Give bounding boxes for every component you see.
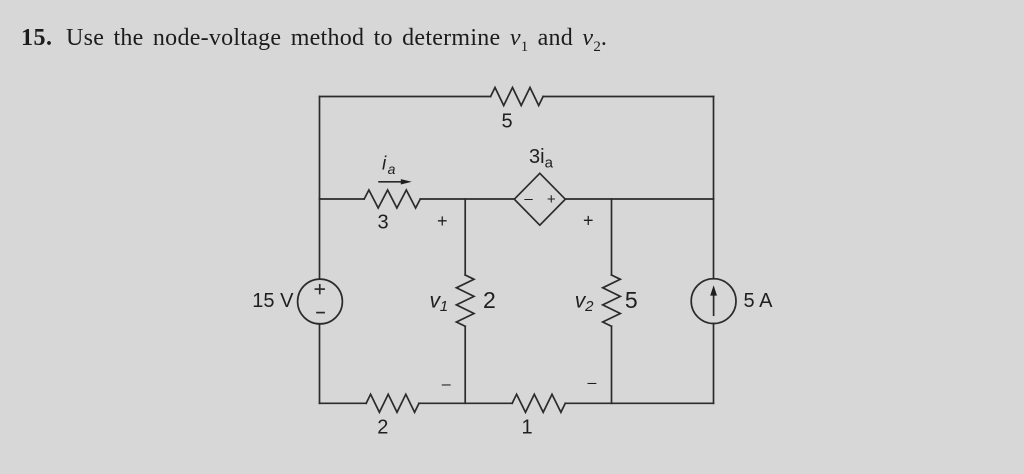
svg-text:5: 5: [501, 110, 512, 132]
current source 5 A: [691, 279, 736, 324]
current arrow ia: [379, 179, 412, 184]
wire: left vertical upper (top rail to voltage source): [319, 97, 321, 280]
voltage source 15 V: [298, 279, 343, 324]
svg-text:i: i: [382, 153, 387, 174]
svg-text:1: 1: [521, 417, 532, 439]
svg-text:5 A: 5 A: [744, 290, 774, 312]
svg-text:–: –: [587, 375, 596, 392]
resistor 3 ohm (middle): [364, 190, 420, 208]
resistor 5 ohm (v2 branch): [603, 275, 621, 326]
wire: v2 branch lower: [611, 326, 613, 403]
svg-text:5: 5: [625, 287, 638, 313]
wire: bottom rail middle segment: [419, 402, 512, 404]
wire: right vertical below current source: [713, 324, 715, 404]
svg-text:2: 2: [377, 416, 388, 438]
wire: top rail right segment: [543, 96, 713, 98]
svg-text:+: +: [547, 191, 556, 208]
svg-text:+: +: [437, 211, 448, 231]
problem statement title: [21, 25, 53, 52]
svg-text:–: –: [524, 190, 533, 207]
svg-text:1: 1: [440, 298, 448, 315]
wire: top rail left segment: [320, 96, 491, 98]
wire: v1 branch lower: [464, 326, 466, 403]
wire: bottom rail left segment: [320, 402, 367, 404]
svg-text:15 V: 15 V: [252, 290, 294, 312]
svg-text:a: a: [388, 161, 396, 177]
wire: middle rail segment left: [320, 198, 365, 200]
resistor 2 ohm (v1 branch): [456, 275, 474, 326]
wire: v2 branch upper: [611, 199, 613, 275]
wire: left vertical below voltage source: [319, 324, 321, 404]
resistor 2 ohm (bottom left): [366, 394, 419, 412]
wire: v1 branch upper: [464, 199, 466, 275]
svg-text:3i: 3i: [529, 146, 545, 168]
wire: middle rail segment right of dependent source: [565, 198, 713, 200]
svg-text:+: +: [583, 210, 594, 230]
dependent source 3ia (diamond): [514, 173, 565, 225]
svg-text:a: a: [545, 154, 554, 171]
svg-text:3: 3: [377, 212, 388, 234]
wire: middle rail segment between 3 ohm and dependent source: [420, 198, 514, 200]
wire: right vertical (middle rail to current source): [713, 199, 715, 279]
wire: right vertical upper (top rail to middle rail): [713, 97, 715, 200]
svg-text:–: –: [442, 376, 451, 393]
svg-text:2: 2: [584, 298, 594, 315]
resistor 5 ohm (top): [491, 88, 543, 106]
wire: bottom rail right segment: [565, 402, 713, 404]
svg-text:2: 2: [483, 287, 496, 313]
resistor 1 ohm (bottom middle): [512, 394, 565, 412]
